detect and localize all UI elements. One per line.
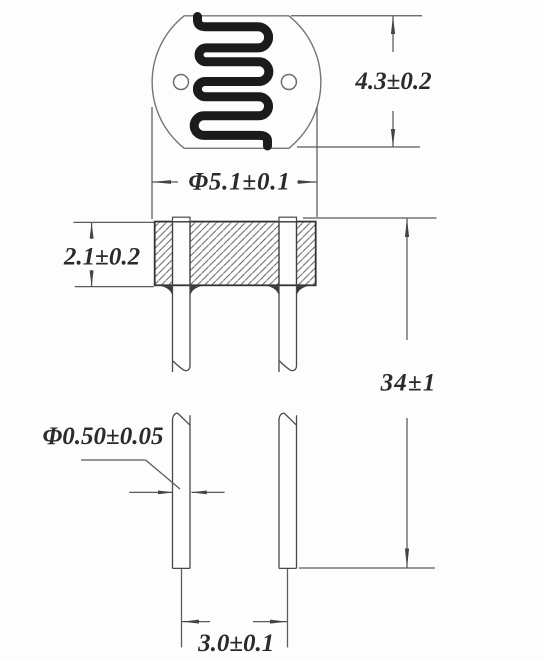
svg-text:3.0±0.1: 3.0±0.1 [197,630,274,657]
svg-text:Φ5.1±0.1: Φ5.1±0.1 [188,169,290,196]
svg-text:34±1: 34±1 [380,370,437,397]
svg-text:2.1±0.2: 2.1±0.2 [63,244,140,271]
svg-text:Φ0.50±0.05: Φ0.50±0.05 [43,423,164,450]
svg-text:4.3±0.2: 4.3±0.2 [354,68,431,95]
